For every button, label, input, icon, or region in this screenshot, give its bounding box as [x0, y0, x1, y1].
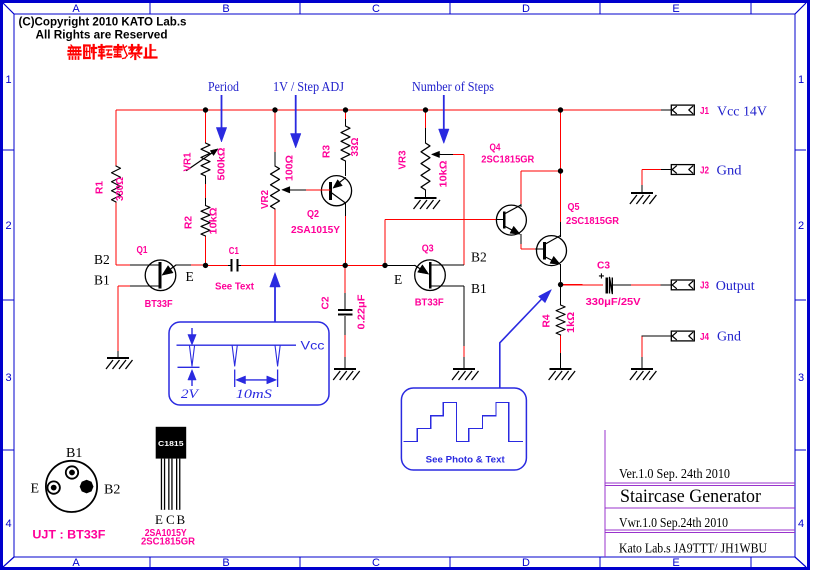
- svg-text:R3: R3: [322, 145, 333, 158]
- svg-text:Kato Lab.s JA9TTT/ JH1WBU: Kato Lab.s JA9TTT/ JH1WBU: [619, 541, 767, 556]
- svg-text:10kΩ: 10kΩ: [209, 208, 220, 235]
- svg-text:B: B: [222, 3, 229, 15]
- svg-text:Gnd: Gnd: [717, 330, 741, 345]
- svg-text:VR2: VR2: [260, 190, 271, 209]
- svg-text:330Ω: 330Ω: [115, 177, 126, 201]
- svg-text:Q4: Q4: [490, 143, 501, 154]
- svg-text:C3: C3: [597, 261, 610, 272]
- svg-text:E: E: [31, 482, 40, 497]
- svg-text:Q2: Q2: [307, 209, 319, 220]
- svg-text:Staircase Generator: Staircase Generator: [620, 486, 762, 507]
- svg-text:All Rights are Reserved: All Rights are Reserved: [36, 30, 168, 42]
- svg-text:R4: R4: [542, 314, 553, 327]
- svg-text:D: D: [522, 557, 530, 569]
- svg-text:E: E: [155, 512, 163, 527]
- svg-text:B: B: [177, 512, 186, 527]
- svg-text:Vcc 14V: Vcc 14V: [717, 105, 767, 120]
- svg-text:C1815: C1815: [158, 439, 184, 448]
- svg-text:Q5: Q5: [568, 202, 580, 213]
- svg-text:R2: R2: [184, 216, 195, 229]
- svg-text:500kΩ: 500kΩ: [217, 148, 228, 181]
- svg-text:B: B: [222, 557, 229, 569]
- svg-text:See Photo & Text: See Photo & Text: [426, 455, 506, 466]
- svg-text:4: 4: [798, 518, 804, 530]
- svg-text:3: 3: [798, 372, 804, 384]
- svg-text:10mS: 10mS: [236, 387, 273, 401]
- svg-text:E: E: [186, 269, 194, 284]
- svg-text:10kΩ: 10kΩ: [439, 161, 450, 188]
- svg-text:D: D: [522, 3, 530, 15]
- svg-text:B2: B2: [94, 252, 110, 267]
- svg-text:2: 2: [5, 220, 11, 232]
- svg-text:VR3: VR3: [398, 150, 409, 169]
- svg-text:2V: 2V: [181, 387, 200, 401]
- svg-text:1V / Step ADJ: 1V / Step ADJ: [273, 79, 344, 94]
- svg-text:2: 2: [798, 220, 804, 232]
- svg-text:Number of Steps: Number of Steps: [412, 79, 494, 94]
- svg-text:330μF/25V: 330μF/25V: [586, 297, 641, 308]
- svg-text:A: A: [72, 557, 80, 569]
- svg-text:B1: B1: [94, 273, 110, 288]
- svg-text:2SC1815GR: 2SC1815GR: [566, 216, 620, 227]
- svg-text:Q3: Q3: [422, 244, 434, 255]
- svg-text:(C)Copyright 2010 KATO Lab.s: (C)Copyright 2010 KATO Lab.s: [19, 17, 187, 29]
- svg-text:VR1: VR1: [183, 152, 194, 171]
- svg-text:UJT : BT33F: UJT : BT33F: [32, 530, 105, 542]
- svg-text:Ver.1.0 Sep. 24th 2010: Ver.1.0 Sep. 24th 2010: [619, 466, 730, 481]
- svg-text:A: A: [72, 3, 80, 15]
- svg-text:B1: B1: [66, 446, 82, 461]
- svg-text:Vwr.1.0 Sep.24th 2010: Vwr.1.0 Sep.24th 2010: [619, 515, 728, 530]
- svg-text:33Ω: 33Ω: [350, 138, 361, 157]
- svg-text:100Ω: 100Ω: [285, 155, 296, 181]
- svg-text:1: 1: [5, 74, 11, 86]
- svg-text:BT33F: BT33F: [145, 299, 173, 310]
- svg-text:3: 3: [5, 372, 11, 384]
- svg-text:Vcc: Vcc: [301, 341, 325, 353]
- svg-text:Output: Output: [716, 279, 755, 294]
- svg-text:1kΩ: 1kΩ: [566, 312, 577, 333]
- svg-text:1: 1: [798, 74, 804, 86]
- svg-text:R1: R1: [95, 181, 106, 194]
- svg-text:4: 4: [5, 518, 11, 530]
- svg-text:E: E: [672, 3, 679, 15]
- svg-text:C: C: [372, 3, 380, 15]
- svg-text:See Text: See Text: [215, 282, 255, 293]
- svg-text:+: +: [599, 272, 605, 283]
- svg-text:0.22μF: 0.22μF: [357, 295, 368, 330]
- svg-text:BT33F: BT33F: [415, 298, 444, 309]
- svg-text:2SA1015Y: 2SA1015Y: [291, 225, 340, 236]
- svg-text:2SC1815GR: 2SC1815GR: [141, 537, 196, 548]
- svg-text:B1: B1: [471, 281, 487, 296]
- svg-text:Gnd: Gnd: [717, 164, 742, 179]
- svg-text:C1: C1: [229, 246, 239, 257]
- svg-text:Q1: Q1: [137, 245, 148, 256]
- svg-text:C2: C2: [321, 296, 332, 309]
- svg-text:J4: J4: [700, 332, 709, 343]
- svg-text:B2: B2: [104, 483, 120, 498]
- svg-text:E: E: [672, 557, 679, 569]
- svg-text:Period: Period: [208, 79, 239, 94]
- svg-text:B2: B2: [471, 250, 487, 265]
- svg-text:J1: J1: [700, 106, 709, 117]
- svg-text:2SC1815GR: 2SC1815GR: [481, 155, 535, 166]
- svg-text:C: C: [372, 557, 380, 569]
- svg-text:C: C: [166, 512, 175, 527]
- svg-text:J2: J2: [700, 165, 709, 176]
- svg-text:E: E: [394, 272, 402, 287]
- svg-text:J3: J3: [700, 281, 709, 292]
